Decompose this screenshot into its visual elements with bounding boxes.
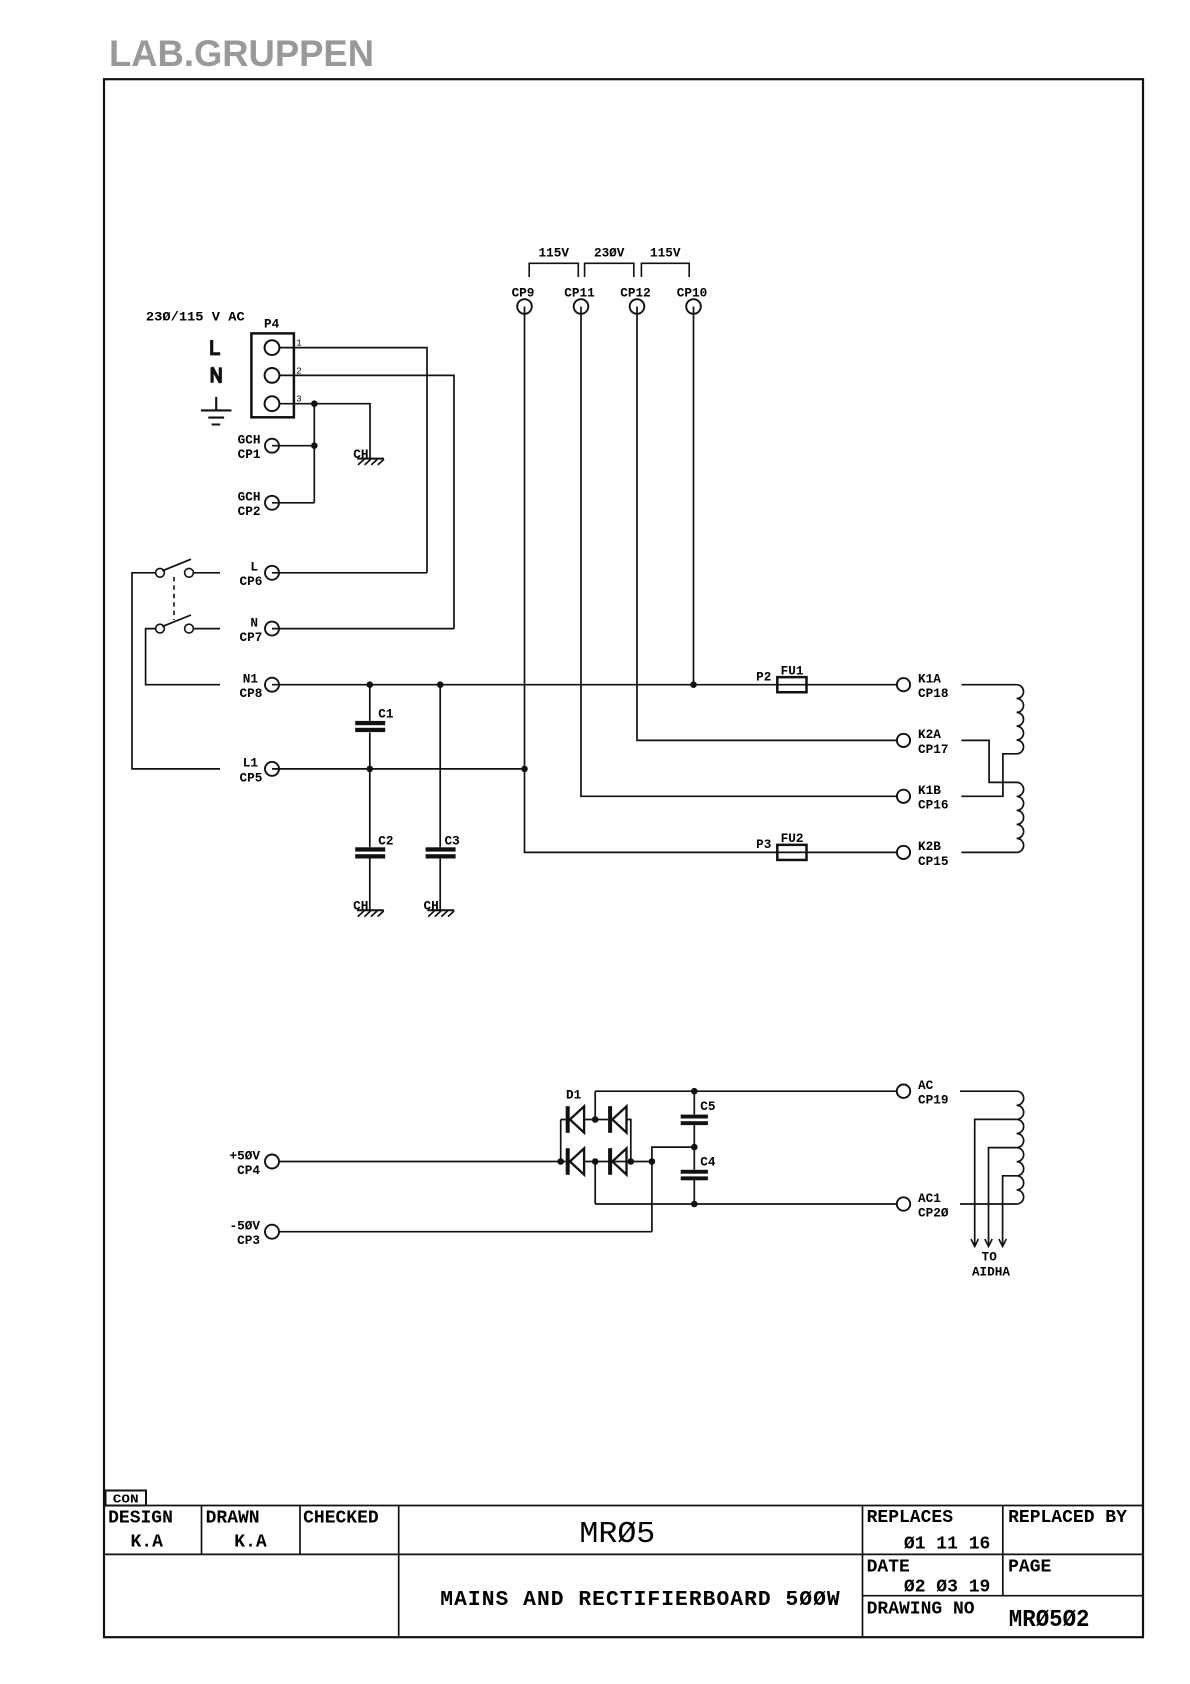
node CP1 <box>311 442 318 449</box>
P4 pin 2 circle <box>265 368 280 383</box>
svg-text:CP16: CP16 <box>918 798 949 813</box>
diode D1a (top-left) <box>566 1106 570 1133</box>
svg-text:MRØ5Ø2: MRØ5Ø2 <box>1009 1607 1090 1634</box>
svg-text:L1: L1 <box>243 756 258 771</box>
terminal K2B/CP15 <box>897 846 910 859</box>
terminal CP11 <box>574 299 589 314</box>
svg-text:AC: AC <box>918 1078 933 1093</box>
svg-text:K2A: K2A <box>918 727 941 742</box>
wire P4 pin1 to CP6 <box>279 348 427 573</box>
svg-text:CP1: CP1 <box>238 447 261 462</box>
wire +50V row <box>272 1161 566 1163</box>
chassis ground CH (C3) <box>427 909 454 911</box>
arrowheads TO AIDHA <box>971 1239 978 1247</box>
svg-text:C4: C4 <box>700 1154 715 1169</box>
node right column <box>628 1158 635 1165</box>
node C3/N1 <box>437 681 444 688</box>
capacitor C3 <box>439 685 441 848</box>
svg-text:Ø2 Ø3 19: Ø2 Ø3 19 <box>904 1577 990 1597</box>
svg-text:FU1: FU1 <box>781 663 804 678</box>
svg-text:P4: P4 <box>264 317 279 332</box>
svg-text:N1: N1 <box>243 672 258 687</box>
wire bottom row <box>584 1161 652 1163</box>
transformer winding K1A-K1B <box>961 685 1023 797</box>
svg-text:K1B: K1B <box>918 783 941 798</box>
svg-text:23Ø/115 V AC: 23Ø/115 V AC <box>146 310 245 325</box>
terminal CP4 <box>265 1155 279 1169</box>
svg-text:AIDHA: AIDHA <box>972 1264 1010 1279</box>
terminal CP5 <box>265 762 279 776</box>
svg-text:P3: P3 <box>756 837 771 852</box>
capacitor C5 <box>693 1091 695 1114</box>
switch S1b <box>156 624 165 633</box>
diode D1c (bottom-left) <box>566 1148 570 1175</box>
transformer secondary winding <box>960 1091 1024 1204</box>
wire CP12 to K2A <box>637 307 904 741</box>
svg-text:FU2: FU2 <box>781 831 804 846</box>
wire AC line to CP19 <box>595 1090 903 1092</box>
node -50V/bridge <box>649 1158 656 1165</box>
svg-text:K2B: K2B <box>918 839 941 854</box>
svg-text:AC1: AC1 <box>918 1191 941 1206</box>
terminal CP1 <box>265 439 279 453</box>
wire P4 pin2 to CP7 <box>279 375 454 628</box>
svg-text:CP2Ø: CP2Ø <box>918 1205 949 1220</box>
fuse FU1 <box>777 677 806 692</box>
svg-text:CP15: CP15 <box>918 854 949 869</box>
terminal AC1/CP20 <box>897 1197 910 1210</box>
chassis ground CH (top) <box>357 458 384 460</box>
svg-text:CH: CH <box>353 447 368 462</box>
svg-text:CH: CH <box>424 899 439 914</box>
terminal CP12 <box>630 299 645 314</box>
svg-text:REPLACES: REPLACES <box>867 1508 954 1528</box>
wire CP2 <box>272 502 314 504</box>
secondary tap 3 <box>1003 1176 1017 1246</box>
svg-text:C1: C1 <box>378 707 393 722</box>
svg-text:CP19: CP19 <box>918 1093 949 1108</box>
wire cap midpoint to -50V <box>652 1147 694 1232</box>
svg-text:N: N <box>250 615 258 630</box>
svg-text:CP9: CP9 <box>512 286 535 301</box>
svg-text:PAGE: PAGE <box>1008 1558 1051 1578</box>
svg-text:D1: D1 <box>566 1088 581 1103</box>
wire GCH bus <box>313 404 315 503</box>
N letter <box>212 367 220 382</box>
svg-text:CP2: CP2 <box>238 504 261 519</box>
capacitor C2 <box>369 769 371 847</box>
svg-text:CH: CH <box>353 899 368 914</box>
node CP10/N1 <box>690 681 697 688</box>
secondary tap 1 <box>975 1119 1017 1246</box>
svg-text:Ø1 11 16: Ø1 11 16 <box>904 1534 990 1554</box>
connector P4 <box>251 333 294 417</box>
CON box <box>106 1491 147 1506</box>
svg-text:CP5: CP5 <box>240 770 263 785</box>
svg-text:L: L <box>250 560 258 575</box>
terminal CP8 <box>265 678 279 692</box>
terminal CP9 <box>517 299 532 314</box>
wire CP10 to N1 <box>693 307 695 685</box>
node C5/C4 mid <box>691 1144 698 1151</box>
terminal K2A/CP17 <box>897 734 910 747</box>
svg-text:K1A: K1A <box>918 672 941 687</box>
node AC/top row <box>592 1116 599 1123</box>
svg-text:CON: CON <box>113 1492 139 1506</box>
svg-text:GCH: GCH <box>238 433 261 448</box>
svg-text:GCH: GCH <box>238 490 261 505</box>
L letter <box>212 340 221 354</box>
svg-text:K.A: K.A <box>131 1533 164 1553</box>
svg-text:C2: C2 <box>378 833 393 848</box>
wire AC1 node down <box>594 1162 596 1205</box>
terminal CP7 <box>265 622 279 636</box>
earth ground <box>201 397 232 425</box>
svg-text:CP3: CP3 <box>237 1233 260 1248</box>
node C1/N1 <box>367 681 374 688</box>
terminal CP2 <box>265 496 279 510</box>
wire top row <box>584 1119 608 1121</box>
svg-text:CP6: CP6 <box>240 574 263 589</box>
svg-text:DATE: DATE <box>867 1558 910 1578</box>
switch S1a <box>156 568 165 577</box>
svg-text:115V: 115V <box>539 246 570 261</box>
svg-text:REPLACED BY: REPLACED BY <box>1008 1508 1127 1528</box>
svg-text:CHECKED: CHECKED <box>303 1509 379 1529</box>
node C1/L1 <box>367 766 374 773</box>
switch link (dashed) <box>173 577 175 620</box>
svg-text:CP4: CP4 <box>237 1163 260 1178</box>
diode D1d (bottom-right) <box>608 1148 612 1175</box>
node C4 bottom <box>691 1201 698 1208</box>
node AC1/bottom row <box>592 1158 599 1165</box>
terminal K1B/CP16 <box>897 790 910 803</box>
svg-text:C5: C5 <box>700 1099 715 1114</box>
wire left column <box>561 1120 566 1162</box>
svg-text:-5ØV: -5ØV <box>230 1219 261 1234</box>
svg-text:TO: TO <box>982 1249 997 1264</box>
svg-text:CP11: CP11 <box>564 286 595 301</box>
svg-text:C3: C3 <box>445 833 460 848</box>
svg-text:23ØV: 23ØV <box>594 246 625 261</box>
wire -50V row <box>272 1231 652 1233</box>
svg-text:CP8: CP8 <box>240 686 263 701</box>
svg-text:CP7: CP7 <box>240 630 263 645</box>
terminal CP6 <box>265 566 279 580</box>
fuse FU2 <box>777 845 806 860</box>
wire CP11 to K1B <box>581 307 904 797</box>
diode D1b (top-right) <box>608 1106 612 1133</box>
svg-text:CP18: CP18 <box>918 686 949 701</box>
node +50V/bridge <box>557 1158 564 1165</box>
secondary tap 2 <box>989 1148 1017 1246</box>
terminal CP10 <box>686 299 701 314</box>
wire P4 pin3 to chassis ground <box>279 404 370 458</box>
node CP9/L1 <box>521 766 528 773</box>
svg-text:MRØ5: MRØ5 <box>579 1517 655 1552</box>
svg-text:LAB.GRUPPEN: LAB.GRUPPEN <box>109 33 374 74</box>
terminal AC/CP19 <box>897 1085 910 1098</box>
wire CP9 to L1 to FU2/K2B <box>525 307 904 853</box>
svg-text:K.A: K.A <box>234 1533 267 1553</box>
svg-text:MAINS AND RECTIFIERBOARD 5ØØW: MAINS AND RECTIFIERBOARD 5ØØW <box>440 1588 840 1612</box>
svg-text:DESIGN: DESIGN <box>108 1509 173 1529</box>
switch S1b wires <box>146 629 220 685</box>
svg-text:CP10: CP10 <box>677 286 708 301</box>
P4 pin 3 circle <box>265 396 280 411</box>
wire CP1 <box>272 445 314 447</box>
node C5 top <box>691 1088 698 1095</box>
svg-text:CP12: CP12 <box>620 286 651 301</box>
title block lines <box>104 1506 1143 1638</box>
chassis ground CH (C2) <box>357 909 384 911</box>
wire N1 line CP8 to K1A <box>272 684 904 686</box>
capacitor C1 <box>369 685 371 721</box>
P4 pin 1 circle <box>265 340 280 355</box>
svg-text:+5ØV: +5ØV <box>230 1148 261 1163</box>
node pin3/GCH <box>311 400 318 407</box>
wire right column <box>626 1120 631 1162</box>
svg-text:DRAWN: DRAWN <box>206 1509 260 1529</box>
voltage brackets <box>529 263 578 277</box>
svg-text:CP17: CP17 <box>918 742 949 757</box>
terminal K1A/CP18 <box>897 678 910 691</box>
svg-text:P2: P2 <box>756 670 771 685</box>
transformer winding K2A-K2B <box>961 740 1023 852</box>
capacitor C4 <box>693 1147 695 1170</box>
wire AC node up <box>594 1091 596 1119</box>
switch S1a wires <box>132 573 220 769</box>
svg-text:DRAWING NO: DRAWING NO <box>867 1600 975 1620</box>
svg-text:115V: 115V <box>650 246 681 261</box>
terminal CP3 <box>265 1225 279 1239</box>
wire AC1 line to CP20 <box>595 1203 903 1205</box>
